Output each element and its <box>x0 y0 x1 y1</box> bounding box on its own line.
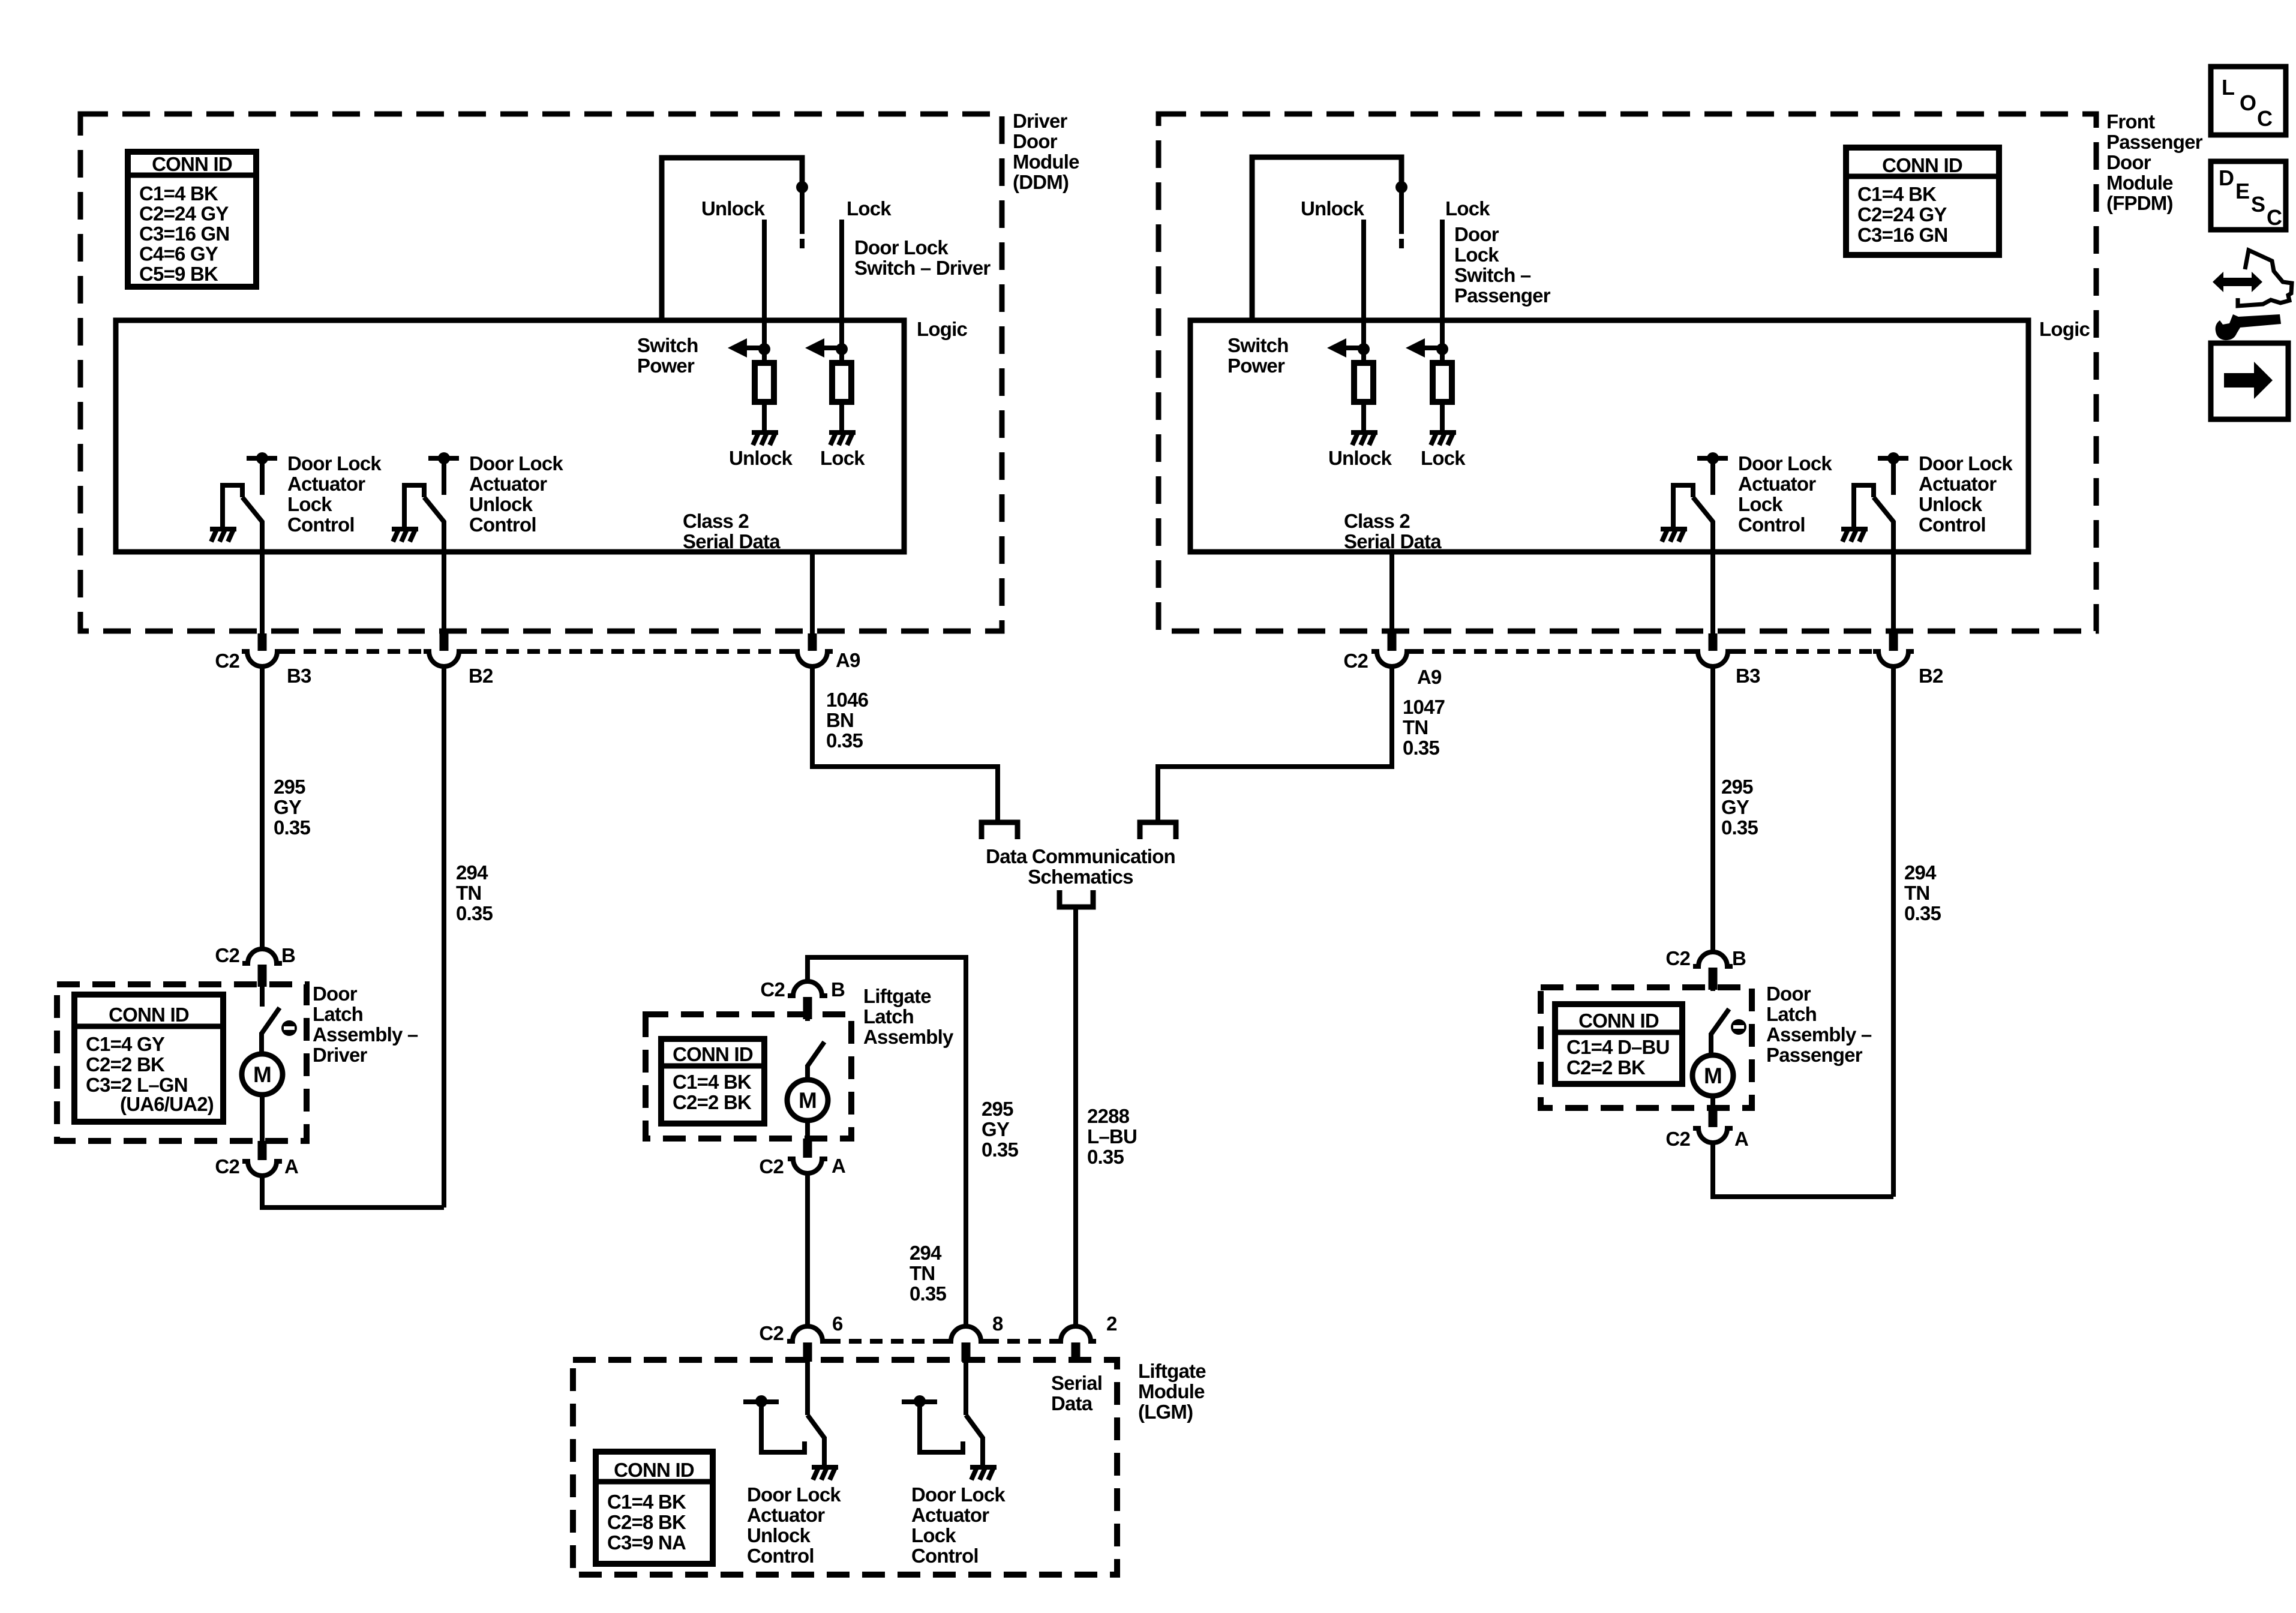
svg-text:Module: Module <box>1138 1380 1205 1402</box>
svg-text:M: M <box>253 1062 271 1087</box>
svg-text:Unlock: Unlock <box>1328 447 1392 469</box>
pin label B liftgate latch <box>831 978 845 1001</box>
svg-text:Door: Door <box>1013 130 1058 152</box>
svg-text:Serial: Serial <box>1051 1372 1102 1394</box>
wire switch power loop FPDM <box>1252 157 1401 320</box>
pin label A9 FPDM <box>1417 666 1442 688</box>
wire 295 GY circuit DDM B3 to driver latch B <box>260 667 265 951</box>
connector dashed line FPDM C2 <box>1411 649 1873 654</box>
motor M liftgate latch <box>787 1080 828 1121</box>
svg-text:Power: Power <box>1227 355 1285 377</box>
switch blade liftgate latch (open) <box>808 1042 824 1080</box>
svg-text:(LGM): (LGM) <box>1138 1401 1193 1423</box>
connector C2 B liftgate latch (cap arc) <box>788 981 827 1019</box>
icon hand with double arrow and wrench <box>2213 250 2292 340</box>
label Door Lock Switch - Driver <box>854 236 991 279</box>
svg-text:Switch: Switch <box>1227 334 1289 356</box>
svg-text:Door: Door <box>1454 223 1499 245</box>
svg-text:A9: A9 <box>1417 666 1442 688</box>
svg-text:C2: C2 <box>1343 650 1368 672</box>
label Door Latch Assembly - Driver <box>313 983 418 1066</box>
svg-text:GY: GY <box>982 1118 1010 1140</box>
pin label B3 DDM <box>287 665 311 687</box>
svg-text:(DDM): (DDM) <box>1013 171 1069 193</box>
svg-text:C3=9 NA: C3=9 NA <box>607 1531 686 1554</box>
svg-text:295: 295 <box>274 776 305 798</box>
wire latch B pin to switch passenger latch <box>1710 968 1715 991</box>
label Door Lock Actuator Lock Control (LGM) <box>911 1483 1006 1567</box>
pin label A9 DDM <box>836 649 860 671</box>
svg-text:M: M <box>799 1088 817 1113</box>
svg-text:Lock: Lock <box>911 1524 956 1546</box>
svg-text:0.35: 0.35 <box>1087 1146 1124 1168</box>
svg-text:Door Lock: Door Lock <box>747 1483 841 1506</box>
svg-text:CONN ID: CONN ID <box>1578 1010 1659 1032</box>
svg-text:Actuator: Actuator <box>747 1504 825 1526</box>
connector id table DDM C2 <box>128 152 256 287</box>
connector id table driver latch <box>74 995 223 1122</box>
label Serial Data (LGM) <box>1051 1372 1102 1414</box>
connector id table passenger latch <box>1555 1004 1682 1084</box>
svg-text:A9: A9 <box>836 649 860 671</box>
svg-text:B: B <box>281 944 295 966</box>
switch blade door lock switch driver (open) <box>800 187 805 248</box>
wire label 295 GY 0.35 (liftgate) <box>982 1098 1018 1161</box>
svg-text:C1=4 BK: C1=4 BK <box>607 1491 686 1513</box>
svg-text:C2: C2 <box>1665 1128 1690 1150</box>
svg-text:2288: 2288 <box>1087 1105 1130 1127</box>
svg-text:Door Lock: Door Lock <box>911 1483 1006 1506</box>
svg-text:Control: Control <box>287 513 355 536</box>
wire driver latch A to 294 TN <box>262 1176 444 1208</box>
component box door latch assembly driver (dashed) <box>57 984 307 1141</box>
svg-text:L: L <box>2222 75 2234 100</box>
label C2 (LGM connector) <box>759 1322 784 1344</box>
svg-text:O: O <box>2240 91 2256 115</box>
connector C2 B passenger latch (cap arc) <box>1693 952 1733 990</box>
svg-text:Actuator: Actuator <box>287 473 365 495</box>
svg-text:C1=4 BK: C1=4 BK <box>139 182 218 205</box>
svg-text:Unlock: Unlock <box>469 493 533 515</box>
svg-text:Serial Data: Serial Data <box>683 530 781 552</box>
label C2 (FPDM bottom connector) <box>1343 650 1368 672</box>
svg-text:GY: GY <box>274 796 302 818</box>
connector pin B3 FPDM C2 <box>1692 633 1733 666</box>
label Door Lock Actuator Unlock Control (FPDM) <box>1919 452 2013 536</box>
svg-text:(FPDM): (FPDM) <box>2106 192 2173 214</box>
switch blade driver latch (open) <box>262 1008 280 1055</box>
svg-text:2: 2 <box>1106 1312 1117 1335</box>
label Driver Door Module (DDM) <box>1013 110 1079 193</box>
svg-text:C2=2 BK: C2=2 BK <box>673 1091 752 1113</box>
wire passenger latch A to 294 TN <box>1713 1143 1893 1197</box>
wire 1047 TN circuit FPDM A9 to data link <box>1158 667 1392 820</box>
svg-text:Lock: Lock <box>847 197 892 220</box>
label Unlock (below ground DDM) <box>729 447 793 469</box>
wire resistor to ground lock FPDM <box>1440 402 1445 431</box>
label Lock (switch top FPDM) <box>1445 197 1490 220</box>
svg-text:C4=6 GY: C4=6 GY <box>139 243 218 265</box>
svg-text:0.35: 0.35 <box>910 1282 946 1305</box>
svg-text:Switch – Driver: Switch – Driver <box>854 257 991 279</box>
connector pin B2 FPDM C2 <box>1873 633 1914 666</box>
svg-text:0.35: 0.35 <box>1721 816 1758 839</box>
svg-text:C2=2 BK: C2=2 BK <box>1566 1056 1646 1079</box>
label C2 (passenger latch A) <box>1665 1128 1690 1150</box>
off-page bracket left (1046 BN to data communication schematics) <box>982 822 1018 839</box>
svg-text:Power: Power <box>637 355 695 377</box>
svg-text:A: A <box>284 1155 298 1178</box>
label Door Lock Switch - Passenger <box>1454 223 1551 307</box>
svg-text:C2: C2 <box>759 1155 784 1178</box>
label Unlock (below ground FPDM) <box>1328 447 1392 469</box>
actuator passenger door lock actuator unlock control (output to B2) <box>1841 452 1908 635</box>
svg-text:1047: 1047 <box>1403 696 1445 718</box>
wire label 294 TN 0.35 (driver) <box>456 861 493 924</box>
ground lock FPDM <box>1430 432 1456 445</box>
pin label B2 DDM <box>469 665 493 687</box>
connector dashed line DDM C2 <box>283 649 792 654</box>
svg-text:Door Lock: Door Lock <box>469 452 563 474</box>
label Lock (below ground FPDM) <box>1421 447 1466 469</box>
arrow unlock sense DDM <box>728 338 764 358</box>
svg-text:0.35: 0.35 <box>982 1139 1018 1161</box>
wire lock input DDM <box>839 220 844 349</box>
label C2 (liftgate latch B) <box>760 978 785 1001</box>
svg-text:B: B <box>1732 947 1746 969</box>
label C2 (passenger latch B) <box>1665 947 1690 969</box>
svg-text:Latch: Latch <box>313 1003 363 1025</box>
svg-text:B: B <box>831 978 845 1001</box>
connector id table LGM <box>596 1452 713 1564</box>
connector pin B2 DDM C2 <box>424 633 464 666</box>
svg-text:C2: C2 <box>1665 947 1690 969</box>
svg-text:Serial Data: Serial Data <box>1344 530 1442 552</box>
svg-text:8: 8 <box>992 1312 1003 1335</box>
wire class 2 serial data DDM to A9 <box>810 552 815 635</box>
svg-text:B3: B3 <box>1736 665 1760 687</box>
node dot lock FPDM <box>1436 343 1448 355</box>
svg-text:CONN ID: CONN ID <box>109 1004 189 1026</box>
svg-text:GY: GY <box>1721 796 1749 818</box>
svg-text:C3=16 GN: C3=16 GN <box>139 223 229 245</box>
connector pin B3 DDM C2 <box>242 633 283 666</box>
label Door Lock Actuator Unlock Control (DDM) <box>469 452 563 536</box>
svg-text:Data: Data <box>1051 1392 1093 1414</box>
status symbol circle-minus passenger latch <box>1731 1019 1746 1035</box>
svg-text:Control: Control <box>911 1545 979 1567</box>
svg-text:Passenger: Passenger <box>1766 1044 1863 1066</box>
resistor lock pull-up FPDM <box>1433 349 1452 402</box>
label Door Lock Actuator Lock Control (DDM) <box>287 452 382 536</box>
module box FPDM (Front Passenger Door Module) dashed outline <box>1158 114 2096 631</box>
svg-text:C1=4 BK: C1=4 BK <box>1857 183 1937 205</box>
svg-text:Lock: Lock <box>1738 493 1783 515</box>
wire label 1046 BN 0.35 <box>826 689 869 752</box>
svg-text:TN: TN <box>910 1262 935 1284</box>
connector id table FPDM C2 <box>1846 148 1999 255</box>
label Unlock (switch top DDM) <box>701 197 766 220</box>
wire serial data into LGM <box>1073 1362 1078 1363</box>
label Liftgate Latch Assembly <box>863 985 954 1048</box>
svg-text:C1=4 BK: C1=4 BK <box>673 1071 752 1093</box>
svg-text:295: 295 <box>1721 776 1753 798</box>
svg-text:295: 295 <box>982 1098 1013 1120</box>
svg-text:CONN ID: CONN ID <box>673 1043 753 1065</box>
svg-text:1046: 1046 <box>826 689 869 711</box>
svg-text:C5=9 BK: C5=9 BK <box>139 263 218 285</box>
svg-text:Lock: Lock <box>1445 197 1490 220</box>
svg-text:Unlock: Unlock <box>1919 493 1983 515</box>
label Class 2 Serial Data (DDM) <box>683 510 781 552</box>
label Door Lock Actuator Unlock Control (LGM) <box>747 1483 841 1567</box>
wire resistor to ground unlock FPDM <box>1361 402 1366 431</box>
svg-text:C3=16 GN: C3=16 GN <box>1857 224 1947 246</box>
arrow lock sense FPDM <box>1406 338 1442 358</box>
svg-text:C2: C2 <box>215 1155 239 1178</box>
module box LGM (Liftgate Module) dashed outline <box>573 1360 1117 1575</box>
svg-text:6: 6 <box>832 1312 843 1335</box>
label Front Passenger Door Module (FPDM) <box>2106 110 2203 214</box>
svg-text:Control: Control <box>747 1545 814 1567</box>
wire lock input FPDM <box>1440 220 1445 349</box>
svg-text:0.35: 0.35 <box>1403 737 1439 759</box>
svg-text:TN: TN <box>1904 882 1929 904</box>
pin label 2 LGM <box>1106 1312 1117 1335</box>
label C2 (driver latch B) <box>215 944 239 966</box>
connector dashed line LGM C2 <box>828 1339 1055 1344</box>
svg-text:M: M <box>1704 1064 1722 1088</box>
pin label 8 LGM <box>992 1312 1003 1335</box>
ground lock DDM <box>829 432 856 445</box>
icon box LOC <box>2211 67 2286 135</box>
pin label A passenger latch <box>1734 1128 1748 1150</box>
connector pin 8 LGM C2 <box>946 1326 986 1362</box>
wire 295 GY circuit FPDM B3 to passenger latch B <box>1710 667 1715 952</box>
svg-text:Data Communication: Data Communication <box>986 845 1175 867</box>
wire latch B pin to switch liftgate latch <box>805 997 810 1021</box>
label C2 (driver latch A) <box>215 1155 239 1178</box>
svg-text:B2: B2 <box>1919 665 1943 687</box>
switch blade passenger latch (open) <box>1711 1009 1729 1056</box>
svg-text:B3: B3 <box>287 665 311 687</box>
component box liftgate latch assembly (dashed) <box>646 1014 851 1139</box>
wire label 2288 L-BU 0.35 <box>1087 1105 1137 1168</box>
wire switch power loop DDM <box>662 158 802 320</box>
motor M driver latch <box>242 1054 283 1095</box>
svg-text:Unlock: Unlock <box>729 447 793 469</box>
svg-text:C2: C2 <box>760 978 785 1001</box>
pin label A driver latch <box>284 1155 298 1178</box>
label Door Latch Assembly - Passenger <box>1766 983 1872 1066</box>
resistor lock pull-up DDM <box>832 349 851 402</box>
svg-text:A: A <box>832 1155 845 1177</box>
svg-text:Class 2: Class 2 <box>1344 510 1410 532</box>
svg-text:Class 2: Class 2 <box>683 510 749 532</box>
logic box FPDM <box>1190 320 2028 552</box>
resistor unlock pull-up FPDM <box>1354 349 1373 402</box>
svg-text:Driver: Driver <box>1013 110 1068 132</box>
wire 1046 BN circuit DDM A9 to data link <box>812 667 998 820</box>
svg-text:Unlock: Unlock <box>1301 197 1365 220</box>
wire label 1047 TN 0.35 <box>1403 696 1445 759</box>
connector pin 2 LGM C2 <box>1055 1326 1096 1362</box>
label Logic (DDM) <box>917 318 967 340</box>
off-page bracket bottom (2288 L-BU from data communication schematics) <box>1060 890 1093 907</box>
svg-text:Control: Control <box>469 513 536 536</box>
wire unlock input DDM <box>762 220 767 349</box>
svg-text:C2=24 GY: C2=24 GY <box>1857 203 1947 226</box>
svg-text:C2=24 GY: C2=24 GY <box>139 203 229 225</box>
logic box DDM <box>116 320 904 552</box>
label C2 (DDM bottom connector) <box>215 650 239 672</box>
svg-text:Liftgate: Liftgate <box>863 985 931 1007</box>
connector C2 A liftgate latch (cup arc) <box>788 1139 827 1173</box>
svg-text:TN: TN <box>1403 716 1428 738</box>
svg-text:0.35: 0.35 <box>1904 902 1941 924</box>
svg-text:Control: Control <box>1738 513 1805 536</box>
svg-text:Door: Door <box>2106 151 2151 173</box>
label Data Communication Schematics <box>986 845 1175 888</box>
actuator driver door lock actuator unlock control (output to B2) <box>392 452 459 635</box>
svg-text:D: D <box>2219 166 2234 190</box>
ground unlock DDM <box>752 432 778 445</box>
svg-text:0.35: 0.35 <box>274 816 310 839</box>
actuator liftgate door lock actuator unlock control (pin 6) <box>743 1362 838 1480</box>
svg-text:Switch –: Switch – <box>1454 264 1531 286</box>
svg-text:0.35: 0.35 <box>456 902 493 924</box>
svg-text:Passenger: Passenger <box>2106 131 2203 153</box>
pin label B passenger latch <box>1732 947 1746 969</box>
svg-text:Actuator: Actuator <box>469 473 547 495</box>
svg-text:S: S <box>2251 192 2265 217</box>
svg-text:0.35: 0.35 <box>826 729 863 752</box>
svg-text:CONN ID: CONN ID <box>614 1459 694 1481</box>
svg-text:Lock: Lock <box>820 447 865 469</box>
connector id table liftgate latch <box>661 1039 764 1124</box>
svg-text:C2: C2 <box>215 650 239 672</box>
svg-text:Liftgate: Liftgate <box>1138 1360 1206 1382</box>
icon box right arrow <box>2211 343 2288 419</box>
svg-text:Passenger: Passenger <box>1454 284 1551 307</box>
wire label 295 GY 0.35 (driver) <box>274 776 310 839</box>
svg-text:C2=8 BK: C2=8 BK <box>607 1511 686 1533</box>
wire 294 TN circuit FPDM B2 down <box>1891 667 1896 1197</box>
svg-text:Control: Control <box>1919 513 1986 536</box>
svg-text:(UA6/UA2): (UA6/UA2) <box>120 1093 214 1115</box>
pin label 6 LGM <box>832 1312 843 1335</box>
svg-text:E: E <box>2235 179 2249 203</box>
svg-text:Lock: Lock <box>287 493 332 515</box>
svg-text:Door Lock: Door Lock <box>854 236 949 259</box>
svg-text:Unlock: Unlock <box>701 197 766 220</box>
wire class 2 serial data FPDM to A9 <box>1389 552 1394 635</box>
wire liftgate latch A to LGM pin 6 (294 TN) <box>805 1173 810 1327</box>
arrow unlock sense FPDM <box>1327 338 1364 358</box>
pin label B3 FPDM <box>1736 665 1760 687</box>
label Lock (below ground DDM) <box>820 447 865 469</box>
wire 294 TN circuit DDM B2 down <box>442 667 446 1208</box>
svg-text:C1=4 GY: C1=4 GY <box>86 1033 165 1055</box>
wire motor to latch A pin passenger <box>1710 1096 1715 1110</box>
svg-text:Unlock: Unlock <box>747 1524 811 1546</box>
svg-text:294: 294 <box>1904 861 1937 884</box>
svg-text:Front: Front <box>2106 110 2155 133</box>
actuator passenger door lock actuator lock control (output to B3) <box>1661 452 1728 635</box>
svg-text:Logic: Logic <box>917 318 967 340</box>
svg-text:Door: Door <box>1766 983 1811 1005</box>
component box door latch assembly passenger (dashed) <box>1541 987 1752 1108</box>
svg-text:A: A <box>1734 1128 1748 1150</box>
pin label B2 FPDM <box>1919 665 1943 687</box>
connector pin A9 FPDM C2 <box>1371 633 1412 666</box>
motor M passenger latch <box>1692 1055 1733 1096</box>
connector pin A9 DDM C2 <box>792 633 833 666</box>
wire motor to latch A pin driver <box>260 1095 265 1143</box>
label Door Lock Actuator Lock Control (FPDM) <box>1738 452 1832 536</box>
wire label 294 TN 0.35 (liftgate) <box>910 1242 946 1305</box>
wire liftgate latch B jog to LGM pin 8 (295 GY) <box>808 957 966 1327</box>
svg-text:TN: TN <box>456 882 481 904</box>
svg-text:Lock: Lock <box>1421 447 1466 469</box>
svg-text:Door: Door <box>313 983 358 1005</box>
svg-text:Logic: Logic <box>2039 318 2090 340</box>
wire label 295 GY 0.35 (passenger) <box>1721 776 1758 839</box>
svg-text:C: C <box>2267 205 2282 230</box>
svg-text:C2=2 BK: C2=2 BK <box>86 1053 165 1076</box>
wire 2288 L-BU circuit to LGM pin 2 <box>1073 907 1078 1327</box>
svg-text:C2: C2 <box>759 1322 784 1344</box>
node junction dot door lock switch driver common <box>796 181 808 193</box>
svg-text:Actuator: Actuator <box>911 1504 989 1526</box>
svg-text:C: C <box>2257 106 2273 131</box>
pin label B driver latch <box>281 944 295 966</box>
wire motor to latch A pin liftgate <box>805 1121 810 1141</box>
off-page bracket right (1047 TN to data communication schematics) <box>1140 822 1176 839</box>
svg-text:C1=4 D–BU: C1=4 D–BU <box>1566 1036 1670 1058</box>
wire label 294 TN 0.35 (passenger) <box>1904 861 1941 924</box>
svg-text:Latch: Latch <box>863 1005 914 1028</box>
svg-text:Latch: Latch <box>1766 1003 1817 1025</box>
arrow lock sense DDM <box>805 338 842 358</box>
module box DDM (Driver Door Module) dashed outline <box>80 114 1002 631</box>
node dot unlock FPDM <box>1358 343 1370 355</box>
label Liftgate Module (LGM) <box>1138 1360 1206 1423</box>
connector C2 B driver latch (cap arc) <box>242 949 282 987</box>
status symbol circle-minus driver latch <box>281 1020 297 1036</box>
svg-text:Driver: Driver <box>313 1044 368 1066</box>
svg-text:Assembly –: Assembly – <box>1766 1023 1872 1046</box>
node dot lock DDM <box>836 343 848 355</box>
node dot unlock DDM <box>758 343 770 355</box>
label Switch Power FPDM <box>1227 334 1289 377</box>
connector C2 A passenger latch (cup arc) <box>1693 1108 1733 1143</box>
svg-text:Door Lock: Door Lock <box>1919 452 2013 474</box>
svg-text:Actuator: Actuator <box>1738 473 1816 495</box>
connector C2 A driver latch (cup arc) <box>242 1141 282 1176</box>
svg-text:BN: BN <box>826 709 854 731</box>
actuator driver door lock actuator lock control (output to B3) <box>210 452 277 635</box>
resistor unlock pull-up DDM <box>755 349 774 402</box>
wire latch B pin to switch driver latch <box>260 965 265 1007</box>
svg-text:C2: C2 <box>215 944 239 966</box>
svg-text:Assembly: Assembly <box>863 1026 954 1048</box>
svg-text:Schematics: Schematics <box>1028 866 1133 888</box>
wire unlock input FPDM <box>1361 220 1366 349</box>
label Class 2 Serial Data (FPDM) <box>1344 510 1442 552</box>
label Unlock (switch top FPDM) <box>1301 197 1365 220</box>
svg-text:Door Lock: Door Lock <box>1738 452 1832 474</box>
